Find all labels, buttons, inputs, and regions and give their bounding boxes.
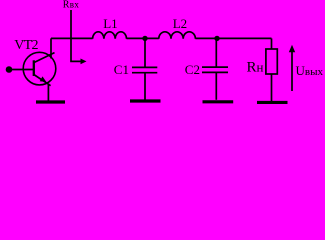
svg-text:Rн: Rн [247,60,264,76]
svg-text:VT2: VT2 [14,38,38,53]
svg-text:C1: C1 [114,62,129,77]
svg-text:L2: L2 [173,16,187,31]
svg-text:C2: C2 [185,62,200,77]
svg-text:L1: L1 [103,16,117,31]
svg-text:Rвх: Rвх [63,0,80,11]
svg-text:Uвых: Uвых [296,63,324,78]
